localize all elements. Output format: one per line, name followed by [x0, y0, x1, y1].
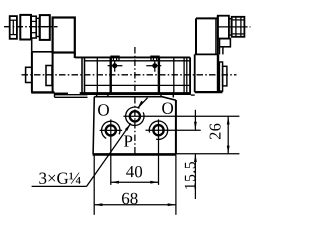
body end cap lines	[184, 58, 187, 94]
right fitting nut	[232, 17, 245, 37]
dim 15.5 upper stem and arrow	[194, 110, 197, 130]
right button part A	[219, 62, 222, 91]
screw 2 head	[151, 56, 159, 61]
screw 1 tip dot	[112, 63, 117, 68]
left fitting body R2	[20, 15, 31, 40]
svg-text:68: 68	[121, 189, 138, 208]
port O right circle	[153, 125, 163, 135]
dim 26 line	[227, 116, 229, 154]
valve body top band line	[85, 60, 191, 62]
left fitting ribbed nut R3	[31, 16, 36, 38]
right connector housing (tall rect)	[196, 16, 218, 55]
fitting to block connector line	[31, 38, 33, 52]
right fitting medium rect	[218, 16, 229, 39]
dim 15.5 lower stem and arrow	[194, 154, 197, 199]
svg-text:40: 40	[126, 162, 143, 181]
right pilot block	[195, 54, 223, 92]
screw 1 crosshair	[108, 61, 123, 72]
right fitting centerline	[218, 26, 251, 28]
dim 40 line	[111, 181, 159, 183]
left pilot block	[31, 52, 54, 93]
left manual override button	[26, 67, 32, 82]
left block inner plunger	[46, 66, 52, 86]
body vertical line c (thick)	[109, 58, 111, 94]
body vertical line d (thick)	[158, 58, 160, 94]
dim 26 arrows	[227, 116, 230, 154]
screw 2 crosshair	[146, 61, 161, 72]
sub-base outline	[93, 97, 177, 155]
svg-text:3×G¼: 3×G¼	[38, 169, 81, 188]
port O left crosshair	[100, 119, 123, 184]
svg-text:26: 26	[205, 123, 224, 140]
dim 68 arrows	[94, 203, 176, 206]
right step neck	[220, 47, 223, 55]
left fitting collar R4	[36, 18, 39, 36]
screw 1 head	[111, 56, 119, 61]
body vertical line e	[173, 58, 175, 94]
left interface plate	[55, 92, 88, 97]
port P horizontal centerline	[123, 115, 239, 117]
svg-text:O: O	[161, 99, 173, 118]
valve body outline	[75, 57, 191, 93]
valve body left edge double line	[82, 57, 85, 93]
leader upper segment with arrow	[138, 98, 148, 109]
leader diagonal to port P	[86, 123, 130, 186]
port O right thread arc	[149, 121, 167, 139]
leader underline	[32, 185, 87, 187]
port P thread arc	[126, 107, 144, 125]
left fitting centerline	[4, 26, 58, 28]
port O left circle	[106, 125, 116, 135]
svg-text:P: P	[123, 132, 132, 151]
svg-text:O: O	[97, 100, 109, 119]
port O left thread arc	[102, 121, 120, 138]
dim 68 extension lines	[94, 156, 176, 215]
dim 40 arrows	[111, 181, 159, 184]
main vertical centerline	[134, 47, 136, 155]
right interface bridge	[191, 94, 195, 96]
left fitting nut R1	[10, 16, 17, 39]
screw 2 tip dot	[152, 63, 157, 68]
svg-text:15.5: 15.5	[182, 161, 199, 191]
base gasket tab left	[97, 94, 108, 97]
right fitting collar	[229, 19, 232, 35]
body vertical line b	[96, 57, 98, 93]
right button part B	[223, 66, 227, 86]
base gasket tab right	[161, 94, 173, 98]
main horizontal centerline	[22, 74, 237, 76]
valve body lower division line	[85, 84, 191, 86]
right fitting step block	[220, 39, 231, 47]
dim 68 line	[94, 204, 176, 206]
base bottom extension line	[176, 153, 239, 155]
left connector housing	[53, 18, 75, 59]
port O right crosshair	[146, 119, 201, 184]
left fitting end block R5	[40, 15, 50, 40]
port P circle	[130, 111, 140, 121]
